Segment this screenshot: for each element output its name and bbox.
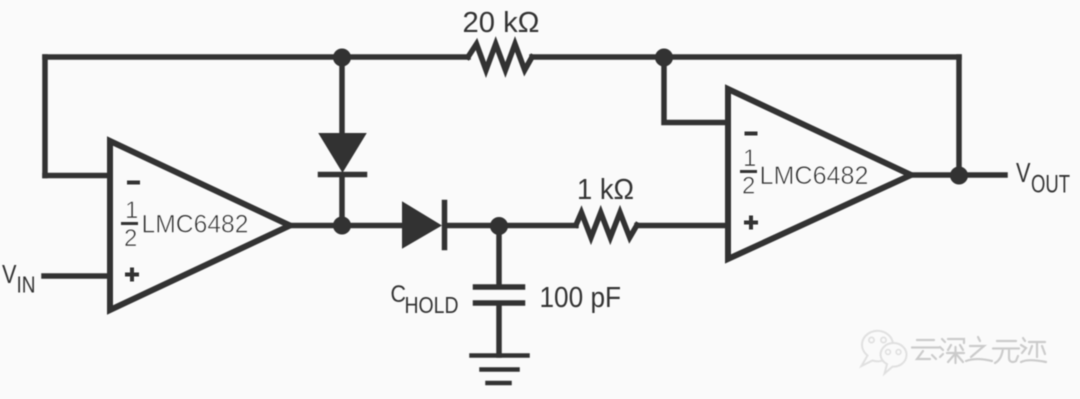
wire top feedback horizontal — [45, 54, 959, 60]
wire node B down to U2 inverting input — [664, 57, 728, 123]
diode D1 (vertical, pointing down) — [320, 134, 365, 171]
wire left feedback vertical — [42, 57, 48, 176]
wire capacitor to ground — [496, 305, 502, 355]
svg-text:2: 2 — [124, 225, 137, 252]
diode D1 cathode bar — [321, 172, 365, 178]
op-amp U2 (right LMC6482) — [728, 89, 911, 259]
watermark text 云深之无迹 (vector strokes) — [912, 337, 1046, 363]
svg-text:1 kΩ: 1 kΩ — [577, 174, 634, 206]
resistor R1 20k zigzag — [468, 44, 532, 70]
wire D1 anode — [339, 57, 345, 135]
node D junction at hold cap — [490, 217, 508, 235]
U1 minus pin label — [129, 181, 138, 185]
node A junction top-left of D1 — [333, 49, 351, 67]
op-amp U1 (left LMC6482) — [110, 141, 290, 310]
U1 plus pin label — [127, 270, 137, 280]
node C junction at U1 output / D1 cathode — [333, 217, 351, 235]
char shen — [940, 339, 964, 363]
svg-text:1: 1 — [743, 145, 756, 172]
char wu — [993, 341, 1019, 363]
U1 1/2 fraction — [124, 197, 138, 252]
svg-text:20 kΩ: 20 kΩ — [463, 7, 540, 39]
wire R2 to U2 plus input — [637, 223, 728, 229]
char zhi — [966, 337, 992, 361]
wire node D to capacitor — [496, 226, 502, 285]
svg-text:HOLD: HOLD — [405, 292, 459, 318]
resistor R2 1k zigzag — [576, 213, 637, 238]
wire D2 cathode to node D — [446, 223, 576, 229]
capacitor C_HOLD plates — [476, 287, 523, 303]
svg-text:V: V — [1016, 157, 1031, 188]
node E output junction — [950, 167, 968, 185]
svg-text:IN: IN — [17, 272, 36, 298]
svg-text:V: V — [2, 259, 17, 289]
label C_HOLD — [391, 281, 459, 318]
output label VOUT — [1016, 157, 1070, 199]
watermark logo (WeChat bubbles) — [862, 331, 907, 374]
U2 minus pin label — [747, 132, 756, 136]
svg-text:100 pF: 100 pF — [540, 282, 622, 314]
wire VIN to U1 plus input — [44, 273, 109, 279]
diode D2 cathode bar — [442, 203, 448, 248]
svg-text:LMC6482: LMC6482 — [760, 162, 869, 190]
node B junction top right — [655, 49, 673, 67]
char yun — [912, 340, 939, 359]
svg-text:1: 1 — [125, 197, 138, 224]
wire U1 output to D2 — [288, 223, 405, 229]
wire output feedback vertical — [956, 57, 962, 175]
ground symbol — [472, 356, 528, 384]
input label VIN — [2, 259, 36, 298]
svg-text:2: 2 — [742, 173, 755, 200]
U2 plus pin label — [746, 218, 756, 228]
wire to U1 inverting input — [45, 173, 110, 179]
svg-text:LMC6482: LMC6482 — [142, 211, 249, 239]
wire U2 output — [909, 172, 1005, 178]
svg-text:OUT: OUT — [1031, 171, 1070, 199]
diode D2 (horizontal, pointing right) — [403, 203, 440, 247]
char ji — [1021, 338, 1046, 362]
U2 1/2 fraction — [742, 145, 756, 200]
wire D1 cathode to node C — [339, 177, 345, 225]
